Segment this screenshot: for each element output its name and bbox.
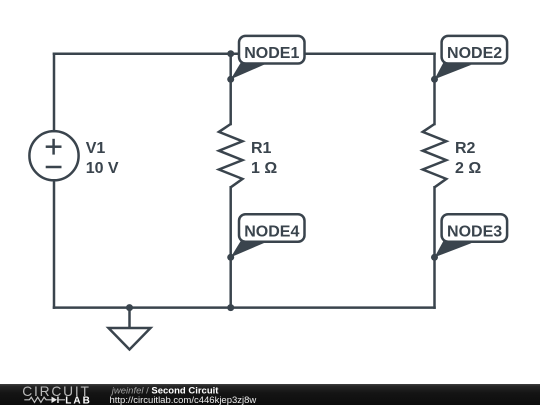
node flag NODE4 [231, 214, 305, 257]
wire top (node NODE1/NODE2 net) [54, 52, 435, 55]
svg-text:R2: R2 [455, 140, 476, 157]
svg-text:10 V: 10 V [86, 160, 119, 177]
svg-text:1 Ω: 1 Ω [251, 160, 277, 177]
svg-text:LAB: LAB [65, 396, 92, 405]
svg-text:V1: V1 [86, 140, 106, 157]
node NODE2 anchor dot [431, 76, 438, 83]
resistor R1 [219, 124, 243, 187]
svg-text:NODE4: NODE4 [244, 223, 299, 240]
wire R1 lower (R1 to NODE4 / bottom wire) [229, 187, 232, 307]
footer bar [0, 384, 540, 405]
resistor R2 [423, 124, 447, 187]
svg-text:2 Ω: 2 Ω [455, 160, 481, 177]
node NODE1 anchor dot [227, 76, 234, 83]
svg-text:NODE3: NODE3 [447, 223, 502, 240]
voltage source V1 [29, 131, 78, 180]
node NODE3 anchor dot [431, 254, 438, 261]
ground symbol [109, 308, 151, 350]
node NODE4 anchor dot [227, 254, 234, 261]
wire left lower (V1 - terminal to bottom wire) [53, 181, 56, 308]
node flag NODE2 [435, 36, 508, 79]
wire bottom (ground net) [54, 306, 435, 309]
node flag NODE3 [435, 214, 508, 257]
svg-text:http://circuitlab.com/c446kjep: http://circuitlab.com/c446kjep3zj8w [110, 395, 257, 405]
wire R2 lower (R2 to NODE3 / bottom wire) [433, 187, 436, 307]
svg-text:R1: R1 [251, 140, 272, 157]
footer logo resistor-diode glyph [24, 397, 65, 402]
wire left upper (V1 + terminal to top wire) [53, 54, 56, 131]
svg-text:NODE2: NODE2 [447, 45, 502, 62]
junction at bottom wire / ground [126, 304, 133, 311]
svg-text:NODE1: NODE1 [244, 45, 299, 62]
wire R2 upper (NODE2 to R2) [433, 54, 436, 124]
junction at top wire / R1 branch [227, 50, 234, 57]
wire R1 upper (NODE1 to R1) [229, 54, 232, 124]
junction at bottom wire / R1 branch [227, 304, 234, 311]
node flag NODE1 [231, 36, 305, 79]
